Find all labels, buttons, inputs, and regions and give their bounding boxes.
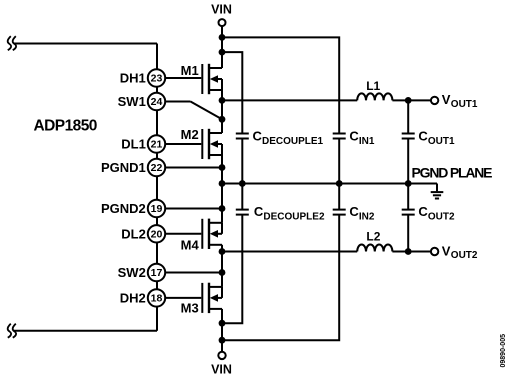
transistor M4 drain stub (bottom) xyxy=(210,244,222,246)
wire rail to CDECOUPLE2 xyxy=(241,184,243,210)
wire CDECOUPLE2 to VIN bottom xyxy=(222,215,242,324)
terminal VOUT1 xyxy=(431,97,438,104)
svg-text:DL1: DL1 xyxy=(121,137,146,152)
junction dot SW2 pin xyxy=(219,269,226,276)
svg-text:DH1: DH1 xyxy=(120,71,146,86)
wire between pin 23 and pin 24 xyxy=(156,87,158,93)
svg-text:17: 17 xyxy=(151,267,163,279)
capacitor CDECOUPLE1 bottom plate xyxy=(236,138,249,140)
svg-text:09890-005: 09890-005 xyxy=(500,334,507,368)
transistor M1 body-source vertical xyxy=(221,79,223,90)
svg-text:C: C xyxy=(418,129,428,144)
pin circle 18 xyxy=(148,289,165,306)
wire DL1 pin to M2 gate xyxy=(166,143,202,145)
terminal VIN bottom xyxy=(218,352,225,359)
svg-text:DH2: DH2 xyxy=(120,290,146,305)
wire SW2 pin to node xyxy=(166,272,222,274)
svg-text:V: V xyxy=(442,92,451,107)
wire bottom-left off-page xyxy=(14,330,158,332)
svg-text:M4: M4 xyxy=(181,237,200,252)
transistor M2 drain stub xyxy=(210,132,222,134)
transistor M3 drain stub (bottom) xyxy=(210,308,222,310)
transistor M2 body arrow xyxy=(210,140,218,148)
wire COUT2 to VOUT2 node xyxy=(407,215,409,252)
transistor Q M1 gate bar xyxy=(201,64,203,94)
transistor M4 source stub (top) xyxy=(210,222,222,224)
wire between pin 21 and pin 22 xyxy=(156,153,158,159)
svg-text:IN1: IN1 xyxy=(359,136,375,147)
transistor M1 body line xyxy=(213,78,222,80)
capacitor CIN2 bottom plate xyxy=(333,214,346,216)
svg-text:M3: M3 xyxy=(181,300,199,315)
transistor M3 body line xyxy=(213,297,222,299)
svg-text:20: 20 xyxy=(151,229,163,241)
capacitor CIN1 top plate xyxy=(333,133,346,135)
svg-text:PGND2: PGND2 xyxy=(101,201,146,216)
capacitor COUT2 bottom plate xyxy=(402,214,415,216)
transistor M2 source stub xyxy=(210,154,222,156)
transistor M4 body-source vertical xyxy=(221,223,223,234)
transistor M1 drain stub xyxy=(210,67,222,69)
wire left rail top segment xyxy=(156,44,158,70)
transistor M3 source stub (top) xyxy=(210,286,222,288)
wire VIN to CDECOUPLE1 top xyxy=(222,52,242,133)
wire break symbol bottom-left xyxy=(8,324,11,338)
wire top-left off-page xyxy=(14,43,158,45)
capacitor CDECOUPLE2 top plate xyxy=(236,209,249,211)
transistor M4 body line xyxy=(213,233,222,235)
junction dot rail left xyxy=(219,180,226,187)
svg-text:21: 21 xyxy=(151,139,163,151)
pin circle 17 xyxy=(148,264,165,281)
transistor M3 channel bar xyxy=(208,283,210,313)
svg-text:C: C xyxy=(349,204,359,219)
wire PGND rail xyxy=(222,183,437,185)
transistor M2 channel bar xyxy=(208,129,210,159)
junction dot SW1 diagonal xyxy=(219,116,226,123)
svg-text:M1: M1 xyxy=(181,63,199,78)
wire CIN2 to VIN bottom xyxy=(222,215,339,341)
svg-text:OUT2: OUT2 xyxy=(451,250,478,261)
wire rail to PGND2 node vertical xyxy=(221,184,223,223)
svg-text:OUT1: OUT1 xyxy=(451,99,478,110)
svg-text:M2: M2 xyxy=(181,127,199,142)
wire DH1 pin to M1 gate xyxy=(166,77,202,79)
svg-text:DECOUPLE1: DECOUPLE1 xyxy=(262,136,324,147)
junction dot rail/CDECOUPLE xyxy=(239,180,246,187)
wire between pin 24 and pin 21 xyxy=(156,110,158,135)
svg-text:C: C xyxy=(253,129,263,144)
transistor M1 channel bar xyxy=(208,64,210,94)
wire CDECOUPLE1 to rail xyxy=(241,139,243,184)
junction dot VOUT1/COUT1 xyxy=(405,97,412,104)
svg-text:18: 18 xyxy=(151,293,163,305)
terminal VOUT2 xyxy=(431,248,438,255)
wire VOUT1 node to COUT1 xyxy=(407,100,409,133)
wire COUT1 to rail xyxy=(407,139,409,184)
wire M2 source to PGND rail xyxy=(221,155,223,184)
svg-text:C: C xyxy=(349,129,359,144)
pin circle 19 xyxy=(148,200,165,217)
inductor L1 xyxy=(357,93,392,100)
wire VIN top vertical to M1 drain xyxy=(221,26,223,68)
wire PGND1 pin to rail xyxy=(166,167,222,169)
transistor M4 body arrow xyxy=(210,230,218,238)
svg-text:L2: L2 xyxy=(366,229,380,243)
svg-text:22: 22 xyxy=(151,162,163,174)
svg-text:DL2: DL2 xyxy=(121,226,146,241)
wire DL2 pin to M4 gate xyxy=(166,233,202,235)
svg-text:OUT1: OUT1 xyxy=(428,136,455,147)
transistor M2 gate bar xyxy=(201,129,203,159)
transistor M4 gate bar xyxy=(201,219,203,249)
svg-text:VIN: VIN xyxy=(211,363,232,377)
capacitor COUT1 bottom plate xyxy=(402,138,415,140)
pin circle 20 xyxy=(148,225,165,242)
wire SW1 node row to L1 xyxy=(222,99,357,101)
svg-text:24: 24 xyxy=(151,96,163,108)
wire between pin 19 and pin 20 xyxy=(156,217,158,225)
pin circle 24 xyxy=(148,93,165,110)
transistor M3 gate bar xyxy=(201,283,203,313)
wire SW1 pin horizontal xyxy=(166,101,191,103)
terminal VIN top xyxy=(219,19,226,26)
transistor M2 body line xyxy=(213,143,222,145)
transistor M3 body arrow xyxy=(210,294,218,302)
capacitor CDECOUPLE1 top plate xyxy=(236,133,249,135)
junction dot rail/COUT xyxy=(405,180,412,187)
wire rail to COUT2 xyxy=(407,184,409,210)
wire SW1 diagonal to switch node xyxy=(191,102,223,120)
svg-text:C: C xyxy=(418,204,428,219)
svg-text:ADP1850: ADP1850 xyxy=(34,117,97,134)
svg-text:DECOUPLE2: DECOUPLE2 xyxy=(263,211,325,222)
capacitor COUT2 top plate xyxy=(402,209,415,211)
wire VIN to CIN1 top xyxy=(222,37,339,133)
ground symbol bars xyxy=(431,191,444,193)
wire rail to CIN2 xyxy=(338,184,340,210)
svg-text:23: 23 xyxy=(151,73,163,85)
junction dot VIN/CIN2 xyxy=(219,337,226,344)
pin circle 22 xyxy=(148,159,165,176)
wire CIN1 to rail xyxy=(338,139,340,184)
transistor M1 body arrow xyxy=(210,75,218,83)
wire PGND2 pin to rail xyxy=(166,208,222,210)
svg-text:SW2: SW2 xyxy=(118,265,146,280)
wire left rail bottom segment xyxy=(156,306,158,331)
svg-text:SW1: SW1 xyxy=(118,94,146,109)
transistor M4 channel bar xyxy=(208,219,210,249)
junction dot PGND1 xyxy=(219,164,226,171)
svg-text:VIN: VIN xyxy=(211,2,232,16)
transistor M2 body-source vertical xyxy=(221,144,223,155)
svg-text:PGND PLANE: PGND PLANE xyxy=(412,165,493,181)
wire L2 to VOUT2 xyxy=(392,251,431,253)
junction dot VIN/CIN1 xyxy=(219,34,226,41)
ground stub xyxy=(436,184,438,192)
transistor M1 source stub xyxy=(210,89,222,91)
pin circle 23 xyxy=(148,69,165,86)
junction dot rail/CIN xyxy=(336,180,343,187)
junction dot PGND2 xyxy=(219,205,226,212)
wire SW2 node row to L2 xyxy=(222,251,357,253)
capacitor CIN1 bottom plate xyxy=(333,138,346,140)
junction dot VIN/CDECOUPLE1 xyxy=(219,49,226,56)
junction dot VOUT2/COUT2 xyxy=(405,248,412,255)
wire M3 drain to VIN bottom terminal xyxy=(221,309,223,352)
svg-text:V: V xyxy=(442,243,451,258)
transistor M3 body-source vertical xyxy=(221,287,223,298)
pin circle 21 xyxy=(148,135,165,152)
wire between pin 17 and pin 18 xyxy=(156,281,158,289)
svg-text:19: 19 xyxy=(151,203,163,215)
inductor L2 xyxy=(357,245,392,252)
wire between pin 20 and pin 17 xyxy=(156,242,158,264)
svg-text:C: C xyxy=(254,204,264,219)
wire between pin 22 and pin 19 xyxy=(156,176,158,200)
wire DH2 pin to M3 gate xyxy=(166,297,202,299)
junction dot SW1 node row xyxy=(219,97,226,104)
wire break symbol top-left xyxy=(8,36,11,50)
capacitor CDECOUPLE2 bottom plate xyxy=(236,214,249,216)
junction dot SW2 node row xyxy=(219,248,226,255)
svg-text:IN2: IN2 xyxy=(359,211,375,222)
wire L1 to VOUT1 xyxy=(392,99,431,101)
svg-text:L1: L1 xyxy=(366,79,380,93)
wire M1 source to M2 drain (SW1 node vertical) xyxy=(221,90,223,133)
capacitor CIN2 top plate xyxy=(333,209,346,211)
svg-text:OUT2: OUT2 xyxy=(428,211,455,222)
junction dot VIN/CDECOUPLE2 xyxy=(219,320,226,327)
svg-text:PGND1: PGND1 xyxy=(101,160,146,175)
capacitor COUT1 top plate xyxy=(402,133,415,135)
wire M4 drain to SW2 row xyxy=(221,245,223,287)
